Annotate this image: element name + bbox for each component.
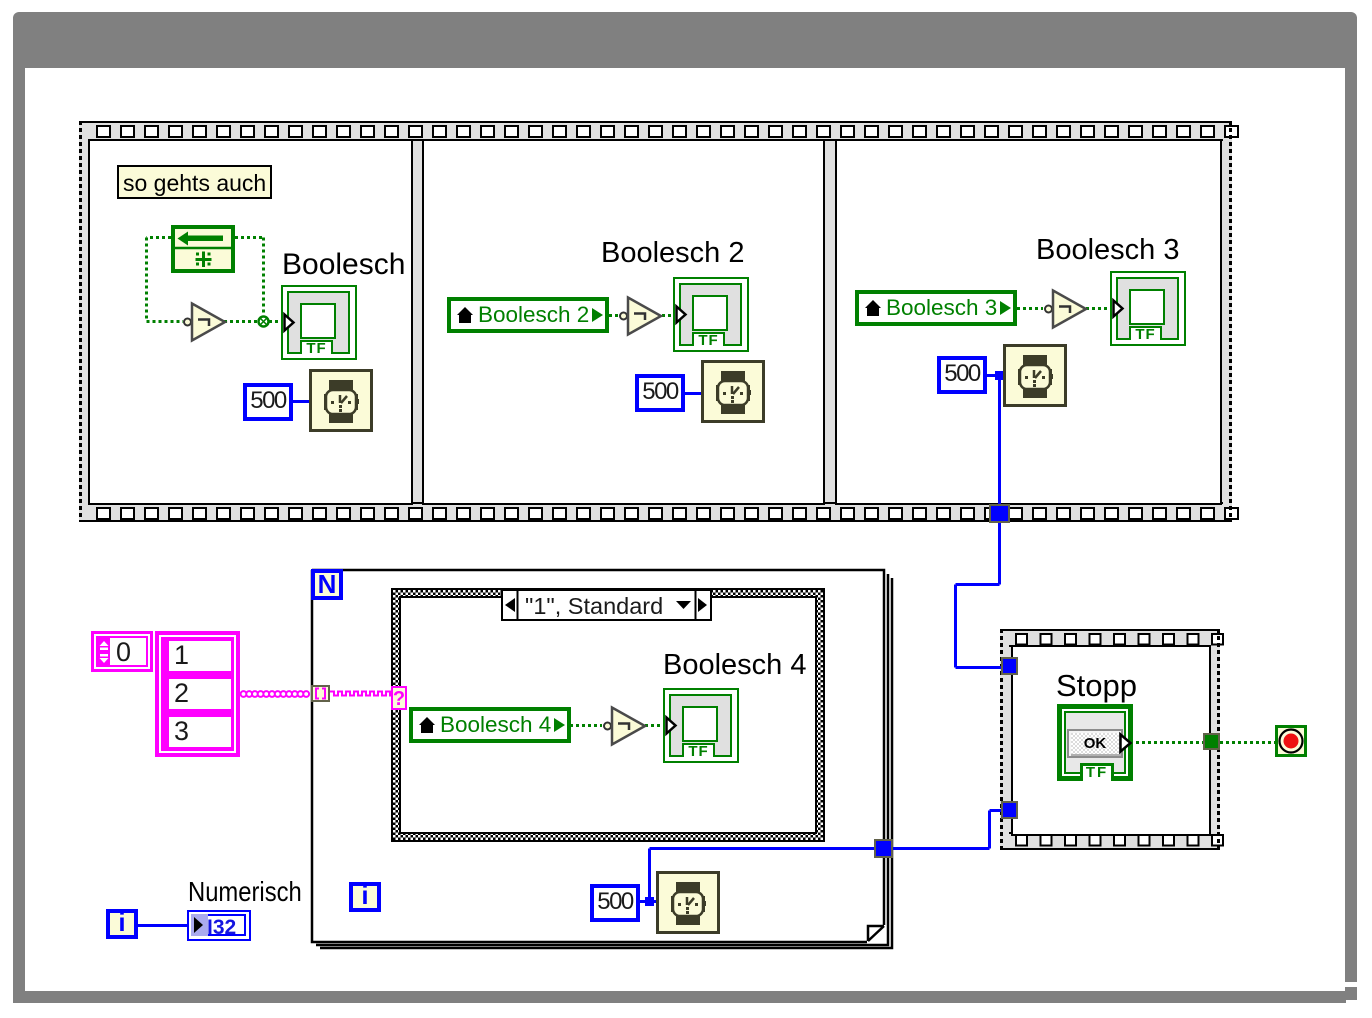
junction: feedback wire join: [259, 317, 269, 327]
sequence top outer line: [79, 121, 1232, 123]
tunnel: sequence bottom (blue): [989, 504, 1010, 523]
case structure checkered border: [391, 588, 825, 842]
indicator Boolesch 4: [663, 688, 739, 763]
stop terminal: [1275, 725, 1307, 757]
sequence frame 2: [422, 139, 825, 505]
label text: so gehts auch: [123, 172, 266, 195]
wire: not gate 3 to indicator 3: [1086, 307, 1113, 310]
wait ms function #4: [656, 871, 720, 934]
array constant index box: [91, 631, 153, 672]
constant 500 #1: [243, 383, 293, 421]
wire: junction to indicator Boolesch: [269, 320, 285, 323]
sequence frame 3: [835, 139, 1222, 505]
constant 500 #2: [635, 374, 685, 412]
wire: 500 #2 to wait #2: [685, 392, 702, 395]
indicator Boolesch 3: [1110, 271, 1186, 346]
feedback node: [171, 225, 235, 273]
wire: local var 4 to not gate 4: [570, 724, 602, 727]
case selector ? glyph: [391, 687, 407, 711]
wire: i terminal to I32 indicator: [138, 924, 188, 927]
wait ms function #3: [1003, 344, 1067, 407]
label: Boolesch: [282, 250, 405, 279]
local variable Boolesch 4: [409, 707, 571, 743]
not gate 2: [615, 296, 661, 336]
not gate 1: [179, 302, 225, 342]
wire: feedback loop dotted green left: [147, 238, 1276, 743]
[] glyph: [311, 685, 330, 702]
constant 500 #4: [590, 884, 640, 922]
constant 500 #3: [937, 356, 987, 394]
i iteration terminal: [349, 882, 381, 912]
local variable Boolesch 2: [447, 297, 609, 333]
junction: 500 #3 wire: [995, 371, 1004, 380]
label: Boolesch 3: [1036, 236, 1180, 264]
sequence bottom outer line: [79, 520, 1232, 522]
junction: 500 #4 wire: [645, 897, 654, 906]
wire: 500 #1 to wait #1: [138, 376, 1003, 926]
case structure inner area: [399, 596, 817, 834]
tunnel: for loop array input: [311, 685, 330, 702]
wire: not gate 1 output: [224, 320, 257, 323]
I32 numeric indicator: [187, 910, 251, 941]
flat sequence structure background: [79, 121, 1232, 522]
N count terminal: [311, 569, 343, 600]
sequence top inner line: [88, 139, 1223, 141]
case selector arrows: [501, 589, 712, 621]
local variable Boolesch 3: [855, 290, 1017, 326]
sequence left zipper edge: [79, 121, 83, 522]
label: Boolesch 2: [601, 239, 745, 267]
wire: loop tunnel to stopp sequence lower tunnel: [893, 811, 1002, 849]
wire: tunnel to stop terminal: [1220, 741, 1275, 744]
sequence perforations bottom row: [79, 507, 1232, 521]
wire: feedback node output to junction: [235, 238, 264, 317]
indicator Boolesch: [281, 285, 357, 360]
stopp sequence perforations bottom: [1000, 834, 1220, 848]
wait ms function #1: [309, 369, 373, 432]
window frame resize corner: [1341, 987, 1357, 1000]
notch: [1341, 987, 1345, 991]
tunnel: stopp sequence upper left (blue): [1001, 657, 1018, 675]
wire: not gate 2 to indicator 2: [662, 314, 678, 317]
wire: OK button to tunnel: [1130, 741, 1203, 744]
label: Boolesch 4: [663, 651, 807, 679]
window frame top band: [13, 12, 1357, 68]
window frame bottom border: [13, 991, 1346, 1003]
wire: 500 #3 to wait #3 and down through tunnel: [956, 376, 1004, 668]
label: Stopp: [1056, 671, 1137, 700]
case selector text: [525, 595, 663, 618]
tunnel: for loop right (blue): [874, 839, 893, 858]
wire: local var 2 to not gate 2: [609, 314, 619, 317]
window frame right border: [1345, 68, 1357, 982]
tunnel: stopp sequence lower left (blue): [1001, 801, 1018, 819]
OK button boolean (Stopp): [1057, 704, 1133, 781]
stopp sequence perforations top: [1000, 633, 1220, 647]
sequence right zipper edge: [1228, 121, 1232, 522]
indicator Boolesch 2: [673, 277, 749, 352]
wire: local var 3 to not gate 3: [1017, 307, 1043, 310]
sequence bottom inner line: [88, 502, 1223, 504]
case selector label box: [501, 589, 712, 621]
wire: 500 #4 junction up to loop tunnel: [650, 849, 876, 901]
not gate 3: [1040, 289, 1086, 329]
wait ms function #2: [701, 360, 765, 423]
tunnel: stopp sequence right (green): [1203, 733, 1220, 750]
sequence frame 1: [88, 139, 413, 505]
label: Numerisch: [188, 878, 322, 906]
stopp sequence frame: [1011, 645, 1211, 836]
stopp sequence left zipper: [1000, 629, 1004, 850]
wire: 500 #4 to wait #4: [638, 900, 657, 903]
i terminal (outside): [106, 909, 138, 939]
not gate 4: [599, 706, 645, 746]
sequence perforations top row: [79, 125, 1232, 139]
case selector terminal: [391, 686, 407, 710]
stopp sequence right zipper: [1216, 629, 1220, 850]
stopp sequence background: [1000, 629, 1220, 850]
wire: loop tunnel to case selector (zigzag pink): [330, 692, 392, 696]
wire: not gate 4 to indicator 4: [645, 724, 664, 727]
label box: so gehts auch: [117, 165, 272, 199]
array constant body: [155, 631, 240, 757]
window frame left border: [13, 68, 25, 1003]
